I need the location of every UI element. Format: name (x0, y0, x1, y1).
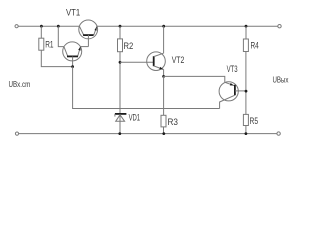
resistor R5 (243, 114, 248, 125)
wire bottom rail (19, 133, 277, 135)
resistor R2 (118, 39, 123, 52)
wire R2 top lead (119, 26, 121, 39)
svg-text:VT2: VT2 (172, 55, 185, 65)
wire VT2 emitter down (163, 70, 165, 77)
svg-text:R4: R4 (251, 40, 259, 50)
wire top rail left (18, 25, 79, 27)
node R2-VT2 base (119, 61, 122, 64)
node rail-R4 (245, 25, 248, 28)
node rail-VT1b collector (57, 25, 60, 28)
wire R1 bottom to base node (41, 50, 72, 66)
node VT2 emitter (162, 75, 165, 78)
svg-text:R5: R5 (250, 116, 259, 126)
transistor VT1 lower (63, 42, 82, 67)
resistor R1 (39, 38, 44, 50)
wire base node down and across (73, 67, 220, 109)
svg-text:R3: R3 (168, 117, 179, 127)
resistor R4 (243, 39, 248, 52)
wire top rail right (97, 25, 278, 27)
wire VT1b emitter to VT1a base (81, 46, 89, 48)
node VT1 base / R1 (71, 65, 74, 68)
wire VT2 collector (163, 26, 165, 53)
node R5-rail (245, 132, 248, 135)
wire R5 bottom lead (245, 126, 247, 134)
svg-text:R2: R2 (124, 41, 134, 51)
wire R4 top lead (245, 26, 247, 39)
wire R4 bottom to R5 (245, 52, 247, 115)
wire R3 bottom lead (163, 127, 165, 134)
svg-text:VT3: VT3 (227, 64, 238, 74)
input terminal top (15, 25, 18, 28)
node rail-VT2 collector (162, 25, 165, 28)
wire emitter node to VT3 (164, 76, 225, 82)
resistor R3 (161, 115, 166, 127)
wire VT2 base (120, 61, 154, 63)
svg-text:VT1: VT1 (66, 8, 80, 18)
transistor VT3 (219, 82, 246, 109)
svg-text:R1: R1 (45, 40, 53, 50)
node rail-R2 (119, 25, 122, 28)
node VD1-rail (118, 132, 121, 135)
output terminal top (278, 25, 281, 28)
node R3-rail (162, 132, 165, 135)
svg-text:UBых: UBых (273, 75, 290, 85)
svg-text:UBx.cm: UBx.cm (9, 79, 31, 89)
wire R1 top lead (40, 26, 42, 38)
transistor VT1 upper (79, 20, 98, 47)
wire VT1b collector (58, 26, 64, 46)
svg-text:VD1: VD1 (129, 113, 141, 123)
wire R2 bottom down to VD1 (119, 52, 121, 134)
node rail-R1 (40, 25, 43, 28)
diode VD1 (115, 114, 127, 121)
wire emitter node down to R3 (163, 76, 165, 115)
node divider VT3 base (245, 90, 248, 93)
transistor VT2 (147, 52, 166, 71)
input terminal bottom (15, 132, 18, 135)
output terminal bottom (277, 132, 280, 135)
